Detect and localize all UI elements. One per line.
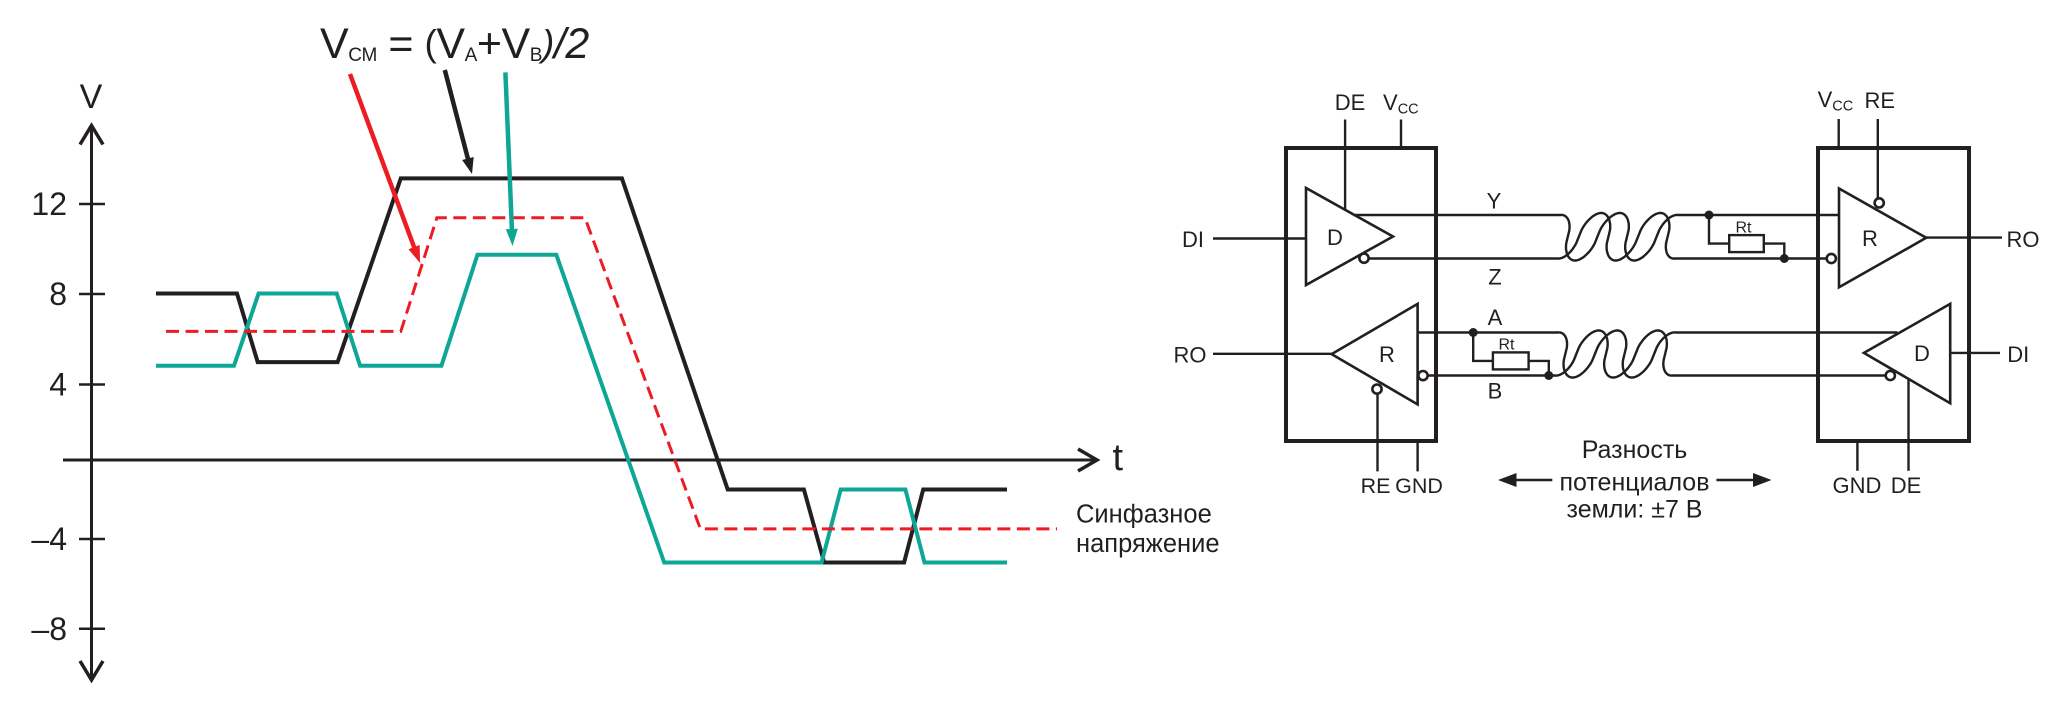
B wire (left, bottom of lower pair) [1428,374,1555,376]
lower pair wire to right box (bottom) [1672,374,1885,376]
junction node (lower A) [1469,328,1478,337]
RE pin wire (left) with bubble [1376,394,1378,471]
twisted pair upper: wire 1 [1560,213,1678,261]
svg-text:12: 12 [31,186,67,222]
red dashed common-mode waveform VCM [166,218,1057,529]
receiver R1 triangle (left) [1332,304,1418,405]
svg-text:RE: RE [1361,474,1391,498]
junction node (upper B) [1780,254,1789,263]
Rt termination resistor (right side) [1709,215,1784,259]
GND pin wire (right) [1856,442,1858,471]
svg-text:DI: DI [1182,227,1204,252]
left arrow of ground potential difference [1498,473,1552,487]
svg-text:RO: RO [1174,343,1207,368]
svg-text:Синфазное: Синфазное [1076,501,1212,529]
DE pin wire (left) [1344,120,1346,211]
Vcc pin wire (left) [1400,120,1402,149]
svg-text:t: t [1113,437,1124,479]
lower pair wire to right box (top) [1675,331,1897,333]
upper pair wire B to right box [1675,257,1826,259]
teal waveform VB [156,255,1007,563]
IC box U1 (left transceiver) [1286,148,1436,441]
receiver R2 triangle (right) [1839,189,1926,288]
twisted pair lower: wire 1 [1557,331,1675,378]
black waveform VA [156,178,1007,562]
A wire (left, top of lower pair) [1418,331,1558,333]
svg-text:GND: GND [1833,473,1882,498]
DI wire (right) [1950,352,2000,354]
svg-text:DE: DE [1891,473,1922,498]
DE pin wire (right) [1907,379,1909,471]
DI input wire (left) [1213,237,1306,239]
svg-text:R: R [1862,226,1878,251]
svg-text:RO: RO [2007,227,2040,252]
junction node (upper A) [1705,211,1714,220]
right arrow of ground potential difference [1716,473,1771,487]
svg-text:Z: Z [1488,265,1501,290]
svg-text:RE: RE [1865,88,1896,113]
svg-text:4: 4 [49,367,67,403]
DE bubble (right driver) [1886,371,1895,380]
svg-text:R: R [1379,342,1395,367]
junction node (lower B) [1544,371,1553,380]
t axis (horizontal) [63,459,1096,462]
Z output bubble (left driver) [1359,254,1368,263]
black annotation arrow [445,70,474,174]
RE bubble (right receiver) [1875,198,1884,207]
svg-text:Rt: Rt [1499,337,1516,354]
svg-text:GND: GND [1395,474,1443,498]
svg-text:B: B [1488,379,1503,404]
twisted pair lower: wire 2 [1555,331,1673,378]
svg-text:–4: –4 [31,521,67,557]
upper pair wire A to right box [1678,214,1839,216]
svg-text:8: 8 [49,276,67,312]
RO output wire (right) [1926,236,2002,238]
Rt termination resistor (left side) [1473,333,1549,376]
svg-text:потенциалов: потенциалов [1559,469,1709,497]
svg-text:D: D [1914,341,1930,366]
B input bubble (left receiver) [1418,371,1427,380]
Y wire (left, top of upper pair) [1354,214,1561,216]
svg-text:A: A [1488,305,1503,330]
twisted pair upper: wire 2 [1557,213,1675,261]
driver D1 triangle (left) [1306,188,1393,285]
teal annotation arrow [505,72,517,246]
svg-text:земли: ±7 В: земли: ±7 В [1567,496,1703,524]
svg-text:напряжение: напряжение [1076,530,1220,558]
svg-text:–8: –8 [31,611,67,647]
red annotation arrow [350,74,420,263]
svg-text:DI: DI [2007,342,2029,367]
V axis (vertical) [90,126,93,680]
B input bubble (right receiver) [1827,254,1836,263]
driver D2 triangle (right) [1864,304,1950,403]
svg-text:DE: DE [1335,90,1366,115]
axis ticks [79,204,105,629]
svg-text:V: V [80,78,103,116]
RE pin wire (right) [1877,119,1879,198]
svg-text:Разность: Разность [1582,436,1688,464]
svg-text:Y: Y [1487,189,1502,214]
svg-text:D: D [1327,225,1343,250]
Vcc pin wire (right) [1837,119,1839,148]
GND pin wire (left) [1416,441,1418,471]
RO output wire (left) [1213,353,1332,355]
svg-text:Rt: Rt [1736,220,1753,237]
Z wire (left, bottom of upper pair) [1369,257,1558,259]
